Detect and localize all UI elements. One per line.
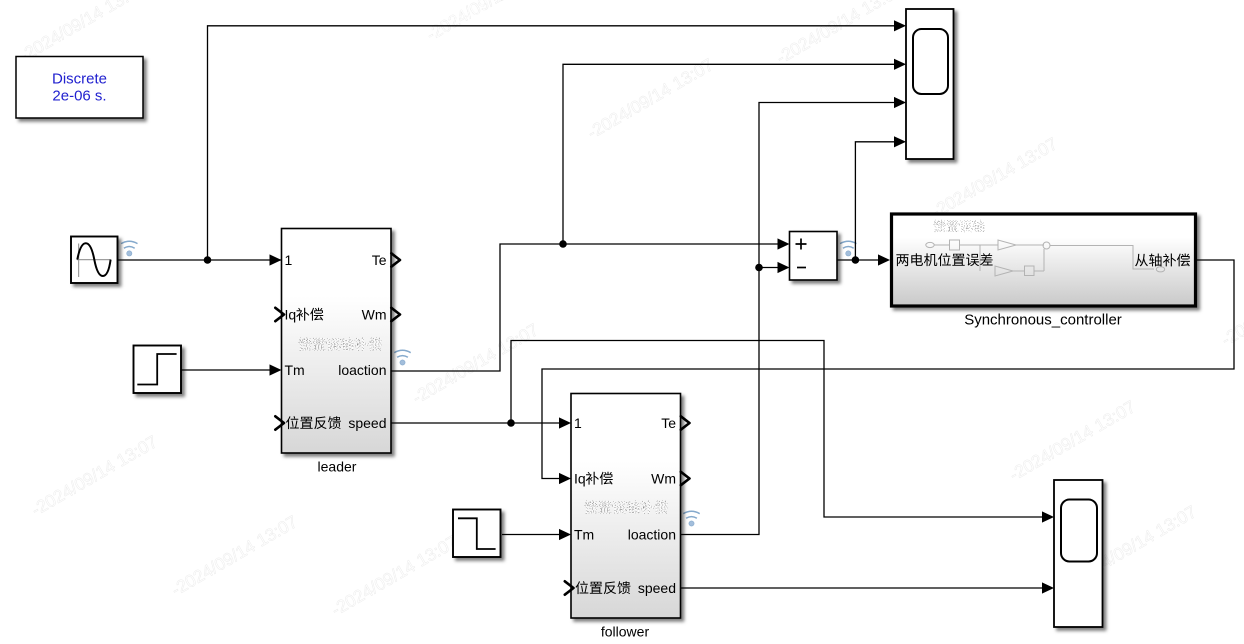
unconnected port chevron: leader/Wm output <box>391 308 400 321</box>
arrowhead: into Sum - <box>778 262 790 273</box>
arrowhead: into follower/1 <box>559 417 571 428</box>
wire: Step1 -> follower/Tm <box>502 534 559 536</box>
svg-text:Discrete: Discrete <box>52 71 107 88</box>
wire: branch up to Scope1 in2 <box>563 64 895 244</box>
block: Sum (+/-) <box>790 232 838 281</box>
wire: Sum -> Synchronous_controller <box>837 259 878 261</box>
svg-text:1: 1 <box>574 415 582 431</box>
junction: on speed wire <box>507 419 515 427</box>
embedded white watermark text inside follower block <box>584 501 667 514</box>
signal logging badge at Sine Wave output <box>121 241 137 256</box>
block: leader subsystem <box>282 229 392 454</box>
wire: leader/loaction -> Sum + <box>391 244 778 371</box>
wire: tap into Sum - <box>759 267 778 269</box>
wire: branch speed -> Scope2 in1 <box>511 341 1042 518</box>
block: Synchronous_controller subsystem <box>892 214 1196 306</box>
svg-text:speed: speed <box>348 415 386 431</box>
junction: on follower loaction vertical <box>755 264 763 272</box>
svg-text:Synchronous_controller: Synchronous_controller <box>964 312 1122 329</box>
arrowhead: into Synchronous_controller <box>878 254 890 265</box>
arrowhead: into Scope2 in1 <box>1042 511 1054 522</box>
arrowhead: into Sum + <box>778 238 790 249</box>
svg-text:Te: Te <box>661 415 676 431</box>
annotation: Discrete sample time box <box>16 57 143 119</box>
block: Step source (leader Tm) <box>134 346 182 394</box>
svg-text:follower: follower <box>601 624 650 640</box>
arrowhead: into Scope1 in1 <box>894 20 906 31</box>
svg-text:loaction: loaction <box>628 527 676 543</box>
arrowhead: into leader/1 <box>270 254 282 265</box>
embedded white watermark text inside Synchronous_controller block <box>933 220 984 232</box>
block: Sine Wave source <box>71 237 118 284</box>
signal logging badge at follower/loaction <box>683 511 699 526</box>
arrowhead: into Scope2 in2 <box>1042 582 1054 593</box>
arrowhead: into Scope1 in3 <box>894 97 906 108</box>
unconnected port chevron: follower/位置反馈 input <box>565 581 574 594</box>
junction: on Sum output <box>852 256 860 264</box>
unconnected port chevron: leader/Te output <box>391 253 400 266</box>
junction: on sine wire <box>204 256 212 264</box>
svg-text:2e-06 s.: 2e-06 s. <box>52 87 106 104</box>
block: Step source (follower Tm, step-down) <box>453 510 501 558</box>
unconnected port chevron: follower/Te output <box>681 416 690 429</box>
arrowhead: into follower/Tm <box>559 529 571 540</box>
unconnected port chevron: leader/Iq补偿 input <box>275 308 284 321</box>
svg-text:Wm: Wm <box>362 307 387 323</box>
arrowhead: into Scope1 in2 <box>894 59 906 70</box>
wire: Synchronous_controller -> follower/Iq <box>542 260 1234 479</box>
block: Scope1 (2 inputs, bottom right) <box>1054 480 1103 627</box>
svg-text:leader: leader <box>318 459 357 475</box>
svg-text:Iq: Iq <box>285 307 297 323</box>
svg-text:Tm: Tm <box>285 362 305 378</box>
svg-text:Wm: Wm <box>651 471 676 487</box>
wire: Step -> leader/Tm <box>181 369 270 371</box>
svg-text:loaction: loaction <box>338 362 386 378</box>
svg-text:speed: speed <box>638 580 676 596</box>
arrowhead: into Scope1 in4 <box>894 136 906 147</box>
junction: on loaction wire <box>559 240 567 248</box>
wire: follower/loaction -> Scope1 in3 <box>680 103 895 535</box>
svg-text:Tm: Tm <box>574 527 594 543</box>
wire: branch up to Scope1 in4 <box>855 142 894 260</box>
wire: leader/speed -> follower/1 <box>391 422 559 424</box>
unconnected port chevron: leader/位置反馈 input <box>275 416 284 429</box>
unconnected port chevron: follower/Wm output <box>681 472 690 485</box>
signal logging badge at Sum output <box>840 241 856 256</box>
arrowhead: into follower/Iq补偿 <box>559 473 571 484</box>
svg-text:Te: Te <box>372 252 387 268</box>
block: Scope (4 inputs, top right) <box>906 9 954 159</box>
label: leader <box>318 459 357 475</box>
label: Synchronous_controller <box>964 312 1122 329</box>
wire: Sine Wave -> leader/1 <box>117 259 282 261</box>
svg-text:1: 1 <box>285 252 293 268</box>
signal logging badge at leader/loaction <box>394 350 410 365</box>
arrowhead: into leader/Tm <box>270 364 282 375</box>
label: follower <box>601 624 650 640</box>
svg-text:Iq: Iq <box>574 471 586 487</box>
wire: follower/speed -> Scope2 in2 <box>680 587 1042 589</box>
block: follower subsystem <box>571 394 681 619</box>
embedded white watermark text inside leader block <box>298 338 381 351</box>
wire: branch up to Scope1 in1 <box>208 26 895 260</box>
